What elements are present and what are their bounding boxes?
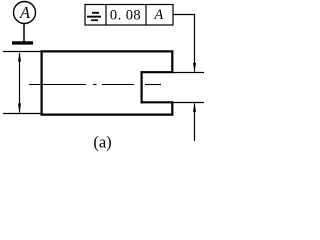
- centerline dash 1: [29, 84, 86, 86]
- svg-text:A: A: [19, 3, 31, 22]
- centerline dash 2: [102, 84, 134, 86]
- arrowhead down at slot top: [193, 63, 196, 73]
- slot top extension line: [173, 72, 204, 74]
- centerline dot: [93, 84, 97, 86]
- part right edge lower segment: [171, 102, 173, 116]
- slot top wall: [141, 71, 174, 73]
- bottom extension line: [3, 113, 41, 115]
- top extension line: [3, 51, 41, 53]
- slot bottom extension line: [173, 102, 204, 104]
- leader horizontal from FCF: [174, 14, 196, 16]
- part left edge: [40, 50, 42, 115]
- lower dimension tail: [194, 104, 196, 142]
- part top edge: [41, 50, 174, 52]
- arrowhead down left: [18, 104, 21, 114]
- centerline dash 3: [145, 84, 161, 86]
- symmetry symbol middle bar: [87, 16, 101, 18]
- arrowhead up at slot bottom: [193, 102, 196, 112]
- datum thick bar: [12, 41, 33, 44]
- leader vertical down: [194, 15, 196, 72]
- svg-text:(a): (a): [93, 133, 111, 152]
- dimension line left: [19, 53, 21, 113]
- part bottom edge: [41, 113, 174, 115]
- FCF divider 1: [105, 5, 107, 26]
- svg-text:A: A: [153, 7, 163, 23]
- slot left wall: [141, 71, 143, 103]
- datum circle: [14, 2, 36, 24]
- part right edge upper segment: [171, 50, 173, 73]
- datum leader stem: [23, 24, 25, 42]
- FCF divider 2: [145, 5, 147, 26]
- arrowhead up left: [18, 52, 21, 62]
- symmetry symbol top bar: [92, 12, 99, 14]
- symmetry symbol bottom bar: [91, 19, 98, 21]
- svg-text:0. 08: 0. 08: [110, 8, 141, 24]
- feature control frame: [85, 5, 173, 26]
- slot bottom wall: [141, 101, 174, 103]
